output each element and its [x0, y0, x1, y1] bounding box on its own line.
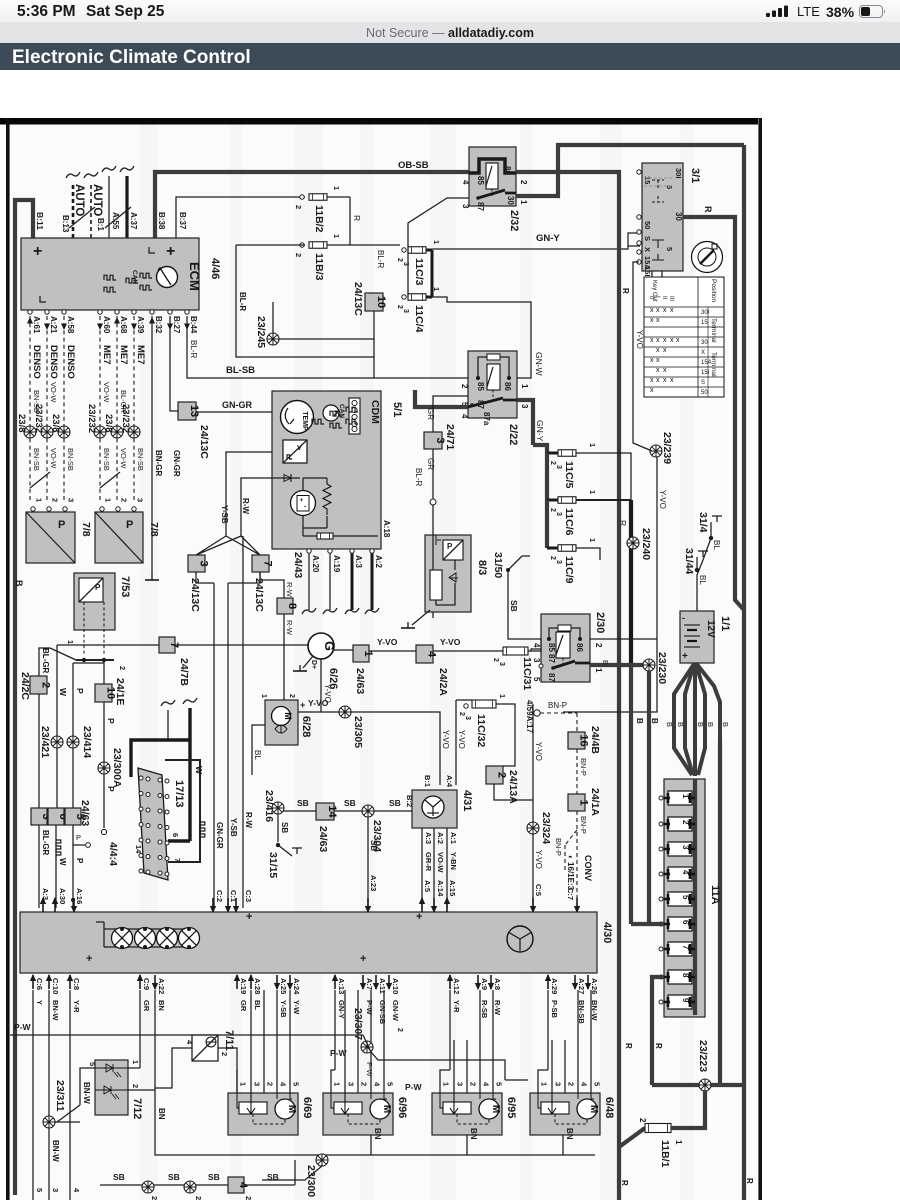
svg-text:W: W [194, 766, 204, 775]
wire 11C/32 to top [456, 699, 472, 701]
svg-text:BN-P: BN-P [554, 838, 563, 856]
svg-text:A:3: A:3 [354, 555, 363, 568]
wire 7/12 pin5 BN-W [57, 1068, 95, 1122]
svg-text:BN: BN [565, 1128, 574, 1140]
svg-text:3: 3 [520, 404, 529, 409]
grommet 23/223 [699, 1079, 711, 1091]
svg-text:11C/4: 11C/4 [413, 305, 425, 333]
svg-text:A:12: A:12 [452, 978, 461, 994]
svg-text:13: 13 [188, 405, 200, 417]
wire 3/1 30 to rail R [683, 217, 744, 610]
svg-text:R: R [745, 1178, 754, 1184]
svg-text:DENSO: DENSO [65, 345, 76, 379]
wire 11B/3 left BL-R [236, 244, 305, 246]
svg-text:A:30: A:30 [58, 888, 67, 904]
CDM A/D box [283, 440, 307, 463]
svg-text:CAN: CAN [338, 404, 345, 418]
wire 2/32 86 right OB-SB rail down [516, 172, 619, 1147]
svg-text:A:11: A:11 [378, 978, 387, 994]
svg-text:11A: 11A [709, 885, 721, 905]
module top feed wires 6/95 [440, 990, 493, 1093]
page top rule [0, 118, 758, 125]
svg-text:Y-VO: Y-VO [440, 637, 461, 647]
bulb 1 in 4/30 [112, 928, 133, 949]
wire 2/30 87 left [531, 649, 541, 651]
wire W chain [57, 645, 159, 742]
svg-text:3: 3 [555, 512, 562, 516]
ECM pin A:21 [45, 310, 49, 314]
svg-text:23/300A: 23/300A [111, 748, 123, 788]
bulb 2 in 4/30 [135, 928, 156, 949]
svg-text:BL: BL [253, 750, 262, 760]
svg-text:P-SB: P-SB [550, 1000, 559, 1019]
svg-text:85: 85 [476, 176, 485, 185]
ECM 4/46 block [21, 238, 199, 310]
damper motor module 6/69 [228, 1093, 298, 1135]
svg-text:3: 3 [464, 716, 471, 720]
svg-text:3: 3 [67, 498, 76, 502]
svg-text:4/4:4: 4/4:4 [107, 842, 119, 866]
svg-text:11C/5: 11C/5 [563, 461, 575, 489]
svg-text:4: 4 [426, 651, 438, 658]
svg-text:15I: 15I [643, 266, 652, 276]
svg-text:A:18: A:18 [382, 520, 391, 538]
svg-text:M: M [588, 1105, 599, 1113]
svg-text:A:68: A:68 [119, 316, 128, 334]
wire BL-R to relay 2/22 85 [374, 377, 468, 379]
svg-text:P-W: P-W [405, 1082, 423, 1092]
ECM pin A:61 [28, 310, 32, 314]
svg-text:24/4B: 24/4B [589, 726, 601, 754]
dashed wire DENSO 2 [46, 316, 48, 500]
svg-text:17/13: 17/13 [173, 780, 185, 808]
svg-text:BN-W: BN-W [51, 1140, 60, 1162]
svg-text:Y-VO: Y-VO [635, 330, 644, 349]
module top feed wires 6/48 [538, 990, 591, 1093]
wire 23/223 horizontal [652, 1083, 744, 1087]
svg-text:3/1: 3/1 [689, 168, 701, 183]
grommet 23/300A [98, 762, 110, 774]
4/30 pin C:10 wire BN-W [46, 974, 52, 989]
svg-text:BL-R: BL-R [376, 250, 385, 268]
frame left border [6, 118, 10, 1200]
svg-text:2: 2 [40, 682, 52, 688]
svg-text:A:7: A:7 [365, 978, 374, 990]
svg-text:6: 6 [171, 833, 180, 837]
svg-text:3: 3 [347, 1082, 356, 1086]
CDM 5/1 block [272, 391, 381, 549]
svg-text:A:16: A:16 [75, 888, 84, 904]
wire from box3 down to C:2 [196, 572, 214, 583]
wire 11B fuse link R [349, 197, 351, 245]
svg-text:Y-SB: Y-SB [229, 818, 238, 837]
svg-text:BN-P: BN-P [548, 701, 567, 710]
svg-text:30: 30 [674, 212, 683, 221]
bulb 3 in 4/30 [157, 928, 178, 949]
svg-text:A:23: A:23 [369, 875, 378, 891]
svg-text:GR: GR [426, 408, 435, 420]
grommet 23/245 [272, 302, 274, 333]
4/30 pin A:29 wire P-SB [545, 974, 551, 989]
fuse 11C/9 [547, 547, 558, 550]
CDM display symbol [349, 398, 360, 434]
svg-text:11C/6: 11C/6 [563, 508, 575, 536]
svg-text:2: 2 [549, 461, 556, 465]
ECM pin A:39 [132, 310, 136, 314]
svg-text:2: 2 [266, 1082, 275, 1086]
connector 10 24/1E [103, 660, 105, 684]
svg-text:4: 4 [461, 180, 470, 185]
svg-text:1: 1 [260, 694, 267, 698]
relay 2/32 [469, 147, 516, 206]
svg-text:30: 30 [506, 196, 515, 205]
svg-text:B: B [665, 722, 674, 727]
P-W bus wires [10, 1035, 371, 1052]
svg-text:24/71: 24/71 [444, 424, 456, 450]
svg-text:C:9: C:9 [142, 978, 151, 990]
svg-text:31/44: 31/44 [683, 548, 695, 574]
dashed wire ME7 5 [116, 316, 118, 500]
svg-text:31/50: 31/50 [492, 552, 504, 578]
svg-text:3: 3 [136, 498, 145, 502]
svg-text:3: 3 [555, 465, 562, 469]
svg-text:GN-Y: GN-Y [535, 420, 545, 442]
svg-text:7: 7 [681, 945, 690, 950]
svg-text:15I: 15I [701, 370, 710, 376]
wire SB down to 31/15 [277, 814, 279, 842]
svg-text:6/48: 6/48 [603, 1097, 615, 1118]
svg-text:24/63: 24/63 [317, 826, 329, 852]
fuse 11C/5 [547, 452, 558, 455]
fuse 11C/31 [503, 647, 528, 655]
svg-text:2: 2 [492, 658, 499, 662]
svg-text:BL-R: BL-R [414, 468, 423, 486]
svg-text:2/30: 2/30 [594, 612, 606, 633]
fuse 11B/2 [300, 195, 304, 199]
fuse 11A-3 [659, 847, 663, 851]
connector 4 bottom [228, 1177, 249, 1193]
svg-text:BL: BL [698, 575, 707, 585]
module top feed wires 6/96 [331, 990, 384, 1093]
svg-text:A:29: A:29 [550, 978, 559, 994]
ground switch 31/15 [276, 843, 280, 847]
wire 11C/3-11C/4 link thick [426, 250, 432, 297]
svg-text:VO-W: VO-W [49, 382, 58, 403]
svg-text:C:2: C:2 [215, 890, 224, 902]
svg-text:VO-W: VO-W [49, 448, 58, 469]
svg-text:C:10: C:10 [51, 978, 60, 994]
svg-text:x: x [663, 337, 667, 344]
wire CDM A:7 [226, 452, 272, 536]
svg-text:85: 85 [476, 382, 485, 391]
svg-text:2: 2 [458, 712, 465, 716]
svg-text:BN-SB: BN-SB [32, 390, 41, 413]
svg-text:CAN: CAN [131, 270, 138, 284]
svg-text:BN-SB: BN-SB [32, 448, 41, 471]
wire 24/13A down to 23/324 [494, 784, 533, 800]
4/30 pin A:26 wire BN-W [585, 975, 591, 990]
svg-text:2: 2 [594, 643, 603, 648]
svg-text:5: 5 [665, 247, 674, 251]
svg-text:A:22: A:22 [157, 978, 166, 994]
svg-text:4: 4 [460, 414, 469, 419]
svg-text:2: 2 [460, 384, 469, 389]
svg-text:6/96: 6/96 [396, 1097, 408, 1118]
svg-text:2: 2 [220, 1052, 229, 1056]
connector 3 24/13C mid [188, 555, 210, 572]
svg-text:24/7B: 24/7B [178, 658, 190, 686]
svg-text:1: 1 [66, 640, 75, 644]
svg-text:W: W [58, 858, 67, 866]
wire 2/30 86 right [590, 638, 657, 640]
svg-text:S: S [643, 236, 652, 241]
svg-text:1: 1 [594, 668, 603, 673]
fuse 11A-7 [659, 947, 663, 951]
svg-text:3: 3 [681, 845, 690, 850]
svg-text:GN-W: GN-W [534, 352, 544, 376]
svg-text:GN-GR: GN-GR [222, 400, 252, 410]
dashed wire ME7 6 [133, 316, 135, 500]
fuse 11C/6 [547, 499, 558, 502]
svg-text:VO-W: VO-W [102, 382, 111, 403]
wire Y-VO vertical from bus to 23/305 [320, 659, 322, 712]
svg-text:5: 5 [292, 1082, 301, 1086]
svg-text:7: 7 [262, 560, 274, 566]
panel 4/31 [412, 790, 457, 828]
ECM CAN symbols [104, 275, 116, 280]
ignition switch 3/1 [642, 163, 683, 271]
svg-text:x: x [670, 307, 674, 314]
svg-text:A:60: A:60 [102, 316, 111, 334]
connector 8 24/43 [260, 572, 284, 598]
fuse 11B/1 [619, 1128, 645, 1147]
svg-text:R: R [654, 1043, 663, 1049]
svg-text:3: 3 [554, 1082, 563, 1086]
svg-text:B: B [14, 580, 24, 587]
grommet 23/239 [650, 445, 662, 457]
svg-text:24/13C: 24/13C [198, 425, 210, 459]
fuse bus thick 2 [545, 500, 549, 548]
wire GN-GR to CDM A:26 [196, 411, 272, 413]
svg-text:3: 3 [51, 1188, 60, 1192]
svg-text:R: R [352, 215, 362, 221]
svg-text:D+: D+ [310, 660, 317, 669]
4/30 pin C:9 wire GR [137, 974, 143, 989]
wire 7/11 pin4 [155, 1048, 192, 1088]
svg-text:SB: SB [369, 840, 378, 851]
svg-text:1: 1 [333, 1082, 342, 1086]
wire OB-SB rail bottom [617, 1147, 621, 1200]
svg-text:2: 2 [396, 1028, 403, 1032]
rail right inner top [742, 145, 746, 1085]
svg-text:+: + [300, 497, 304, 504]
svg-text:BN-SB: BN-SB [136, 448, 145, 471]
wire ECM A:37 thick [125, 176, 128, 238]
svg-text:7/53: 7/53 [119, 576, 131, 597]
svg-text:2: 2 [51, 498, 60, 502]
svg-text:x: x [656, 337, 660, 344]
svg-text:3: 3 [402, 309, 409, 313]
svg-text:SB: SB [168, 1172, 180, 1182]
svg-text:GR: GR [142, 1000, 151, 1012]
connector 16 24/4B dashed chain [540, 713, 577, 732]
svg-text:R-W: R-W [241, 498, 250, 514]
relay 2/32 switch [476, 196, 480, 200]
svg-text:A:19: A:19 [239, 978, 248, 994]
svg-text:2: 2 [294, 205, 303, 209]
connector 1 24/1A [568, 794, 590, 811]
svg-text:+: + [246, 911, 252, 923]
svg-text:GN-SB: GN-SB [378, 1000, 387, 1025]
wire ECM B:38 OB-SB thick to relay 2/32 [155, 172, 469, 238]
svg-text:2: 2 [150, 1196, 159, 1200]
svg-text:B:27: B:27 [172, 316, 181, 334]
svg-text:R: R [703, 206, 713, 213]
grommet 23/414 [67, 736, 79, 748]
svg-text:6/28: 6/28 [300, 716, 312, 737]
svg-text:87: 87 [476, 202, 485, 211]
svg-text:x: x [663, 307, 667, 314]
svg-text:23/232: 23/232 [86, 404, 97, 433]
svg-text:A:10: A:10 [391, 978, 400, 994]
wire B:44 BL-SB [187, 316, 374, 378]
svg-text:A:15: A:15 [448, 880, 457, 896]
svg-text:BL-GR: BL-GR [41, 648, 50, 674]
svg-text:Position: Position [710, 279, 717, 303]
svg-text:1: 1 [332, 186, 341, 190]
svg-text:3: 3 [555, 560, 562, 564]
svg-text:1: 1 [104, 498, 113, 502]
svg-text:4/30: 4/30 [601, 922, 613, 943]
svg-text:W: W [58, 688, 68, 697]
ECM corner pin marks [149, 247, 155, 253]
svg-text:GR-R: GR-R [424, 852, 433, 872]
fuse 11C/4 [402, 295, 406, 299]
svg-text:x: x [656, 307, 660, 314]
svg-text:5: 5 [681, 895, 690, 900]
svg-text:SB: SB [280, 822, 289, 833]
switch arm AUTO pair 2 [105, 207, 131, 228]
svg-text:DENSO: DENSO [48, 345, 59, 379]
svg-text:11B/1: 11B/1 [659, 1140, 671, 1168]
svg-text:GN-W: GN-W [391, 1000, 400, 1022]
grommet 23/304 [362, 805, 374, 817]
svg-text:5/1: 5/1 [391, 402, 403, 417]
svg-text:BN: BN [373, 1128, 382, 1140]
svg-text:4: 4 [237, 1182, 249, 1189]
grommet 23/421 [51, 736, 63, 748]
module 7/12 [95, 1060, 128, 1115]
svg-text:R-W: R-W [244, 812, 253, 828]
svg-text:BN-W: BN-W [51, 1000, 60, 1021]
grommet SB 1 [142, 1181, 154, 1193]
CDM resistor [323, 478, 331, 515]
wires GN-GR Y-SB R-W to 4/30 [213, 583, 215, 908]
4/30 switch lever [96, 922, 104, 929]
svg-text:A:24: A:24 [292, 978, 301, 995]
fuse 11C/32 [464, 704, 468, 708]
svg-text:GN-GR: GN-GR [172, 450, 181, 477]
battery harness lens [674, 664, 694, 775]
svg-text:AUTO: AUTO [73, 184, 85, 216]
svg-text:3: 3 [456, 1082, 465, 1086]
switch 31/50 [432, 612, 434, 618]
svg-text:23/305: 23/305 [352, 716, 364, 748]
svg-text:R: R [620, 1180, 629, 1186]
4/30 pin A:7 wire P-W [360, 975, 366, 990]
svg-text:SB: SB [344, 798, 356, 808]
svg-text:2: 2 [288, 694, 295, 698]
svg-text:Y-VO: Y-VO [658, 490, 667, 509]
wire 2/32 87 to fuses 11C/3 11C/4 [408, 198, 469, 297]
svg-text:x: x [650, 387, 654, 394]
svg-text:14: 14 [326, 805, 338, 818]
svg-text:+: + [33, 243, 42, 260]
svg-text:BL: BL [253, 1000, 262, 1010]
svg-text:B:1: B:1 [96, 218, 105, 231]
svg-text:23/8: 23/8 [50, 414, 61, 433]
ECM pin B:27 [168, 310, 172, 314]
svg-text:A:25: A:25 [279, 978, 288, 994]
svg-text:6/69: 6/69 [301, 1097, 313, 1118]
svg-text:24/1A: 24/1A [589, 788, 601, 816]
svg-text:Y-VO: Y-VO [308, 698, 329, 708]
svg-text:P: P [76, 833, 81, 842]
svg-text:2: 2 [118, 666, 127, 670]
svg-text:III: III [668, 296, 674, 301]
svg-text:87: 87 [547, 654, 556, 663]
svg-text:Y-SB: Y-SB [220, 505, 229, 524]
svg-text:TEMP: TEMP [301, 411, 308, 431]
4/30 pin A:13 wire GN-Y [332, 974, 338, 989]
wire ECM B:11 to left rail B [15, 200, 33, 1195]
frame right border [758, 118, 762, 1200]
4/30 pin A:10 wire GN-W [386, 975, 392, 990]
svg-text:X: X [701, 350, 705, 356]
svg-text:OB-SB: OB-SB [398, 160, 429, 171]
CDM diode [272, 477, 300, 479]
svg-text:B:1: B:1 [423, 775, 432, 787]
svg-text:23/230: 23/230 [656, 652, 668, 684]
svg-text:A:61: A:61 [32, 316, 41, 334]
crossover diamond to boxes 3 and 7 [196, 536, 260, 555]
connector 10 24/13C on BL-R [373, 311, 375, 378]
svg-text:12V: 12V [705, 620, 716, 638]
svg-text:A:19: A:19 [332, 555, 341, 573]
relay 2/22 switch 87a [470, 403, 474, 407]
svg-text:x: x [670, 337, 674, 344]
svg-text:B: B [650, 718, 659, 724]
connector 1 24/63 [353, 645, 374, 662]
connector 2 24/2C [30, 676, 52, 694]
wire Y-VO bus 1 [369, 650, 416, 652]
dashed wire ME7 4 [99, 316, 101, 500]
svg-text:Y-VO: Y-VO [534, 850, 543, 869]
svg-text:2: 2 [131, 1084, 140, 1088]
damper motor module 6/48 [530, 1093, 600, 1135]
svg-text:BN-W: BN-W [82, 1082, 91, 1104]
svg-text:16: 16 [578, 734, 590, 746]
4/30 pin C:6 wire Y [30, 974, 36, 989]
svg-text:+: + [416, 911, 422, 923]
svg-text:2: 2 [549, 556, 556, 560]
svg-text:7/8: 7/8 [80, 522, 92, 537]
svg-text:5: 5 [88, 1062, 97, 1066]
svg-text:x: x [663, 367, 667, 374]
dashed wire DENSO 1 [29, 316, 31, 500]
svg-text:GN-GR: GN-GR [215, 822, 224, 849]
svg-text:86: 86 [503, 382, 512, 391]
